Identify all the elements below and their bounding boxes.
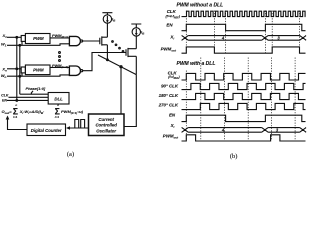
- ellipsis between PWM channels: [59, 52, 61, 54]
- wire Phase bus: [20, 93, 48, 95]
- svg-text:PWM: PWM: [33, 68, 44, 73]
- wire X1 input: [7, 36, 21, 38]
- waveform Xi bus 2: [182, 128, 307, 133]
- wire Xn input: [7, 68, 21, 70]
- svg-text:180° CLK: 180° CLK: [159, 93, 179, 98]
- arrowhead counter output: [6, 116, 10, 120]
- waveform CLK ref: [182, 73, 306, 80]
- Digital Counter block U5: [27, 124, 66, 136]
- wire gate G2 to M2 gate: [83, 53, 126, 71]
- svg-text:PWM: PWM: [33, 36, 44, 41]
- waveform EN 2: [182, 115, 306, 121]
- wire W1 input: [7, 44, 69, 46]
- pulse glyph on wire: [74, 120, 87, 129]
- waveform PWMout 1: [182, 47, 306, 53]
- node junction B-W1: [19, 44, 21, 46]
- svg-text:PWM without a DLL: PWM without a DLL: [177, 2, 224, 8]
- wire CLK to DLL: [9, 96, 49, 98]
- svg-text:CLK: CLK: [1, 94, 9, 98]
- wire bus A vertical: [16, 37, 18, 100]
- PWM block U2: [25, 65, 50, 75]
- waveform EN 1: [182, 24, 306, 30]
- wire gate G1 to M1 gate: [83, 40, 100, 42]
- PWM block U1: [25, 34, 50, 44]
- arrowhead into counter: [66, 126, 70, 130]
- wire PWM1 to gate G1: [50, 37, 69, 39]
- NAND gate G2: [69, 66, 80, 75]
- CCO block U4: [89, 114, 125, 136]
- wire Wn tap to input box 2: [21, 73, 23, 76]
- svg-text:270° CLK: 270° CLK: [158, 103, 179, 108]
- svg-text:n: n: [15, 103, 17, 107]
- svg-text:(a): (a): [67, 151, 74, 158]
- node sum junction: [120, 66, 122, 68]
- transistor M2: [126, 48, 136, 57]
- current source I_B 2: [132, 28, 140, 36]
- input box U2a: [21, 67, 25, 73]
- current source I_B 1: [103, 15, 111, 23]
- svg-text:90° CLK: 90° CLK: [161, 83, 179, 88]
- wire Wn input: [7, 75, 69, 76]
- wire M1 source to sum node: [106, 45, 108, 60]
- guide lines section 1: [186, 11, 299, 55]
- svg-text:(b): (b): [230, 153, 238, 160]
- guide lines section 2: [186, 58, 295, 141]
- svg-text:EN: EN: [166, 23, 173, 28]
- svg-text:i=1: i=1: [55, 115, 60, 119]
- svg-text:EN: EN: [2, 98, 7, 102]
- svg-text:Current: Current: [98, 117, 114, 122]
- waveform 90 CLK: [182, 83, 306, 89]
- svg-text:Phase[1:0]: Phase[1:0]: [26, 86, 46, 91]
- svg-text:Controlled: Controlled: [95, 123, 117, 128]
- supply rail 1: [102, 13, 112, 15]
- waveform Xi bus 1: [182, 36, 307, 41]
- wire sum to CCO top: [120, 67, 122, 114]
- wire PWM2 to gate G2: [50, 66, 69, 68]
- node junction A-EN: [16, 100, 18, 102]
- ellipsis between stages: [112, 41, 114, 43]
- wire I1 to M1 drain: [106, 23, 108, 37]
- svg-text:PWM with a DLL: PWM with a DLL: [177, 61, 216, 67]
- wire Phase arrow: [31, 91, 33, 94]
- waveform CLK fast: [182, 11, 306, 16]
- svg-text:Digital Counter: Digital Counter: [31, 128, 62, 133]
- supply rail 2: [131, 24, 141, 28]
- transistor M1: [100, 36, 108, 45]
- wire I2 to M2 drain: [135, 36, 137, 49]
- wire M2 source to sum node: [135, 56, 137, 74]
- wire CCO to counter: [67, 127, 89, 129]
- waveform 270 CLK: [182, 103, 306, 109]
- waveform PWMout 2: [182, 135, 306, 141]
- wire counter output: [8, 117, 28, 130]
- wire summing slant: [98, 55, 136, 75]
- svg-text:CLK: CLK: [167, 9, 177, 14]
- node junction A-Xn: [16, 68, 18, 70]
- wire bus B vertical: [19, 45, 21, 94]
- svg-text:i=1: i=1: [13, 115, 18, 119]
- svg-text:n: n: [57, 103, 59, 107]
- svg-text:EN: EN: [169, 113, 176, 118]
- NAND gate G1: [69, 36, 80, 45]
- node junction B-Wn: [19, 75, 21, 77]
- DLL block U3: [48, 93, 69, 105]
- wire slant end to CCO right: [124, 75, 136, 127]
- wire W1 tap to input box 1: [21, 41, 23, 45]
- svg-text:DLL: DLL: [54, 97, 63, 102]
- waveform 180 CLK: [182, 93, 306, 99]
- input box U1a: [21, 36, 25, 42]
- svg-text:Oscillator: Oscillator: [96, 128, 116, 133]
- node junction A-X1: [16, 36, 18, 38]
- wire EN to DLL: [7, 99, 48, 101]
